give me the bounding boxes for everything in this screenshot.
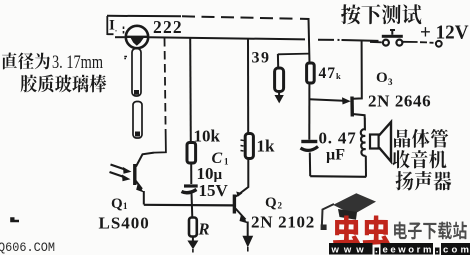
wire: 47k to emitter junction and down to cap: [308, 83, 310, 140]
svg-text:39: 39: [252, 50, 271, 67]
resistor 39 hanging with ground arrow: [278, 53, 309, 56]
svg-text:com: com: [443, 245, 470, 255]
svg-text:LS400: LS400: [99, 214, 150, 233]
wire: C1 to bottom rail and R: [191, 193, 194, 218]
wire: button to +12V terminal, dashed: [403, 42, 434, 43]
ground arrow below R: [192, 237, 194, 242]
transistor Q2 2N2102: [233, 195, 236, 214]
wire: Q3 emitter line: [309, 99, 343, 100]
svg-text:.: .: [115, 25, 117, 34]
lamp L1 (photo source lamp, circle with filled filament): [126, 26, 148, 48]
svg-text:2N 2102: 2N 2102: [251, 213, 315, 232]
svg-text:eeworm: eeworm: [383, 245, 435, 255]
svg-text:Q606.COM: Q606.COM: [0, 240, 55, 255]
wire: Q1 collector bend: [136, 153, 154, 167]
svg-text:3: 3: [388, 77, 393, 87]
wire: Q3 B2 up to rail: [353, 41, 362, 99]
speaker: [370, 135, 379, 149]
wire: 47k column (top rail corner down): [309, 19, 310, 64]
svg-text:Q: Q: [265, 195, 277, 211]
svg-text:k: k: [336, 71, 341, 81]
svg-text:Q: Q: [111, 196, 123, 212]
speaker coil: [361, 119, 366, 156]
svg-text:222: 222: [153, 17, 183, 37]
wire: dashed vertical from rail to Q1 collector: [165, 38, 166, 130]
svg-text:1: 1: [224, 157, 229, 167]
wire: 1k column from rail: [247, 38, 249, 133]
capacitor 0.47uF electrolytic: [301, 140, 317, 143]
svg-text:10k: 10k: [194, 127, 221, 146]
push button switch: [370, 41, 382, 43]
svg-text:2N 2646: 2N 2646: [368, 92, 431, 111]
svg-text:1: 1: [123, 201, 128, 211]
svg-text:.: .: [436, 245, 439, 255]
watermark chongchong red characters: [333, 216, 390, 247]
wire: 1k to Q2 collector: [236, 159, 249, 197]
scan marks left of 1k: [241, 140, 245, 151]
svg-text:3. 17mm: 3. 17mm: [52, 53, 103, 73]
transistor Q1 phototransistor LS400: [133, 164, 136, 185]
resistor 47k: [307, 63, 315, 83]
svg-text:R: R: [198, 220, 210, 239]
svg-text:0. 47: 0. 47: [319, 129, 357, 148]
resistor R: [189, 218, 197, 237]
ground arrow below Q2: [242, 236, 253, 248]
resistor 1k: [245, 134, 253, 159]
annotation: press to test: [341, 4, 421, 24]
svg-text:+ 12V: + 12V: [420, 22, 469, 44]
wire: bottom rail (Q1 emitter to Q2 base): [144, 204, 233, 207]
glass rod (3.17mm plastic glass rod, two bars): [132, 49, 141, 97]
watermark www.eeworm.com bar: [329, 243, 470, 255]
stray minus mark at left: [10, 219, 19, 222]
svg-text:.: .: [375, 245, 378, 255]
svg-text:www: www: [331, 245, 369, 255]
annotation: transistor radio speaker text: [394, 129, 448, 148]
light arrows into Q1: [111, 165, 126, 170]
wire: cap to bottom right rail: [309, 153, 311, 177]
svg-text:2: 2: [278, 201, 283, 211]
wire: top rail from L1 bracket to 47k column: [107, 16, 310, 19]
wire: Q3 B1 down to speaker coil: [353, 114, 365, 119]
node L1 label bracket: [107, 16, 113, 35]
wire: 10k to C1: [190, 163, 192, 184]
watermark dianzi xiazaizhan gray characters: [394, 222, 467, 240]
annotation: plastic glass rod text: [21, 75, 107, 93]
wire: main +12V rail from lamp to push-button: [150, 37, 306, 39]
transistor Q3 UJT 2N2646: [350, 97, 354, 117]
svg-text:O: O: [376, 70, 388, 86]
scan speck near rod: [124, 57, 127, 59]
resistor 10k: [187, 143, 196, 164]
svg-text:15V: 15V: [199, 181, 229, 200]
svg-text:47: 47: [319, 65, 337, 82]
wire: 10k column from rail down: [189, 38, 192, 143]
annotation: rod diameter text 3.17mm: [2, 53, 50, 70]
svg-text:µF: µF: [326, 147, 345, 164]
watermark graduation cap logo: [333, 193, 376, 214]
svg-text:1k: 1k: [257, 137, 276, 156]
+12V terminal: [436, 41, 442, 47]
wire: bottom right rail: [310, 175, 366, 178]
capacitor C1 electrolytic 10u 15V: [184, 184, 198, 187]
wire: lamp left lead with dashes: [123, 27, 125, 34]
